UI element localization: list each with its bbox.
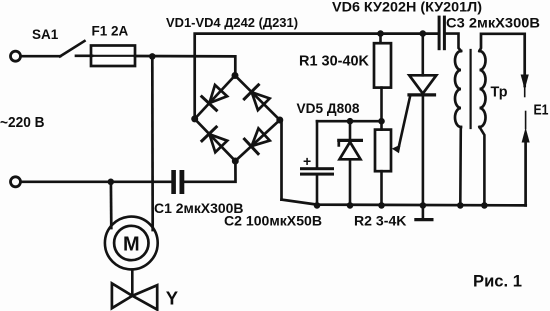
svg-text:Y: Y xyxy=(166,288,179,309)
node bridge right vertex xyxy=(276,117,283,124)
spark gap E1 top electrode arrow xyxy=(521,75,529,90)
svg-text:R1 30-40K: R1 30-40K xyxy=(299,54,370,70)
terminal X1 (upper AC input) xyxy=(11,51,21,61)
svg-text:+: + xyxy=(303,153,311,169)
wire top rail (bridge left vertex up and right to C3) xyxy=(195,34,438,119)
node bridge top vertex xyxy=(232,72,239,79)
diode VD2 (top-right) xyxy=(244,85,271,112)
transformer Tr primary winding xyxy=(455,51,461,127)
capacitor C1 plates xyxy=(171,170,176,194)
svg-text:C2 100мкХ50В: C2 100мкХ50В xyxy=(224,213,322,229)
wire C1 to bridge bottom vertex xyxy=(184,161,235,182)
node R1 top on rail xyxy=(377,30,384,37)
wire VD5 anode to bottom rail xyxy=(349,159,352,205)
node VD6 anode on rail xyxy=(420,30,427,37)
wire rail to R1 xyxy=(379,34,382,44)
wire gate (thyristor gate to wiper) xyxy=(399,95,411,147)
switch SA1 lever xyxy=(60,41,85,56)
spark gap E1 bottom electrode arrow xyxy=(525,112,527,129)
zener VD5 triangle xyxy=(340,142,361,159)
motor M inner circle xyxy=(114,226,148,260)
wire R2 to bottom rail xyxy=(380,171,383,205)
fuse F1 through-wire xyxy=(93,55,134,57)
transformer Tr secondary winding xyxy=(480,51,486,127)
node VD6 cathode bottom xyxy=(420,202,427,209)
svg-text:Тр: Тр xyxy=(491,84,508,101)
resistor R1 xyxy=(374,43,391,87)
diode VD4 (bottom-right) xyxy=(244,127,270,154)
wire node to C2/VD5 xyxy=(317,120,382,123)
wire secondary top to E1 top electrode xyxy=(480,34,525,86)
node junction motor left xyxy=(108,179,115,186)
wire R1 bottom to R2 top xyxy=(380,88,383,130)
svg-text:С3 2мкХ300В: С3 2мкХ300В xyxy=(446,16,540,31)
node VD5 bottom xyxy=(347,202,354,209)
motor M outer circle xyxy=(105,217,158,270)
terminal X2 (lower AC input) xyxy=(11,177,21,187)
wire primary to bottom rail xyxy=(459,127,462,205)
valve Y right triangle xyxy=(132,285,157,309)
svg-text:R2 3-4K: R2 3-4K xyxy=(354,213,407,229)
svg-text:VD5 Д808: VD5 Д808 xyxy=(297,100,360,116)
node secondary bottom xyxy=(481,202,488,209)
wire VD6 cathode to bottom rail xyxy=(422,95,425,205)
thyristor VD6 triangle xyxy=(409,75,436,93)
diode VD3 (bottom-left) xyxy=(202,127,229,153)
capacitor C2 plates xyxy=(300,167,334,170)
svg-text:VD6 КУ202Н (КУ201Л): VD6 КУ202Н (КУ201Л) xyxy=(332,0,482,15)
wire terminal X1 to switch xyxy=(21,55,60,58)
bridge VD1-VD4 diamond wires xyxy=(195,76,235,119)
svg-text:VD1-VD4 Д242 (Д231): VD1-VD4 Д242 (Д231) xyxy=(166,15,298,30)
svg-text:~220 В: ~220 В xyxy=(0,115,45,131)
node junction at fuse output xyxy=(149,53,156,60)
wire bridge right vertex down to bottom rail xyxy=(280,120,282,200)
transformer Tr core xyxy=(470,50,472,128)
fuse F1 body xyxy=(91,46,135,67)
wire fuse to bridge top vertex xyxy=(135,56,235,76)
valve Y left triangle xyxy=(112,283,132,308)
resistor R2 (variable) xyxy=(375,130,391,172)
node C2 bottom xyxy=(314,202,321,209)
valve stem xyxy=(131,270,134,296)
capacitor C2 positive lead xyxy=(316,121,319,167)
diode VD1 (top-left) xyxy=(202,84,229,110)
svg-text:SA1: SA1 xyxy=(32,27,59,42)
thyristor VD6 anode lead xyxy=(421,34,424,76)
zener VD5 cathode lead xyxy=(349,121,352,139)
svg-text:Рис. 1: Рис. 1 xyxy=(473,272,522,291)
capacitor C3 plates xyxy=(438,16,441,51)
svg-text:M: M xyxy=(123,233,140,255)
ground xyxy=(422,205,425,218)
wire motor left leg xyxy=(110,182,113,228)
wire switch to fuse xyxy=(76,54,92,57)
wire C3 to transformer primary xyxy=(446,34,461,51)
node VD5 top xyxy=(347,118,354,125)
node primary bottom xyxy=(457,202,464,209)
zener VD5 cathode bar xyxy=(339,139,362,142)
svg-text:E1: E1 xyxy=(534,102,549,119)
wiper arrow into R2 xyxy=(392,145,401,154)
wire motor right leg (from fuse node down to motor) xyxy=(151,56,154,230)
node R1/R2/VD5 xyxy=(378,118,385,125)
node R2 bottom xyxy=(378,202,385,209)
node bridge left vertex xyxy=(191,115,198,122)
svg-text:F1 2A: F1 2A xyxy=(92,24,129,39)
wire C2 to bottom rail xyxy=(316,176,319,206)
wire bottom rail xyxy=(282,200,526,206)
node bridge bottom vertex xyxy=(232,158,239,165)
thyristor VD6 cathode bar xyxy=(409,93,435,96)
wire secondary to bottom rail xyxy=(480,127,485,205)
wire terminal X2 to C1 xyxy=(21,180,171,183)
